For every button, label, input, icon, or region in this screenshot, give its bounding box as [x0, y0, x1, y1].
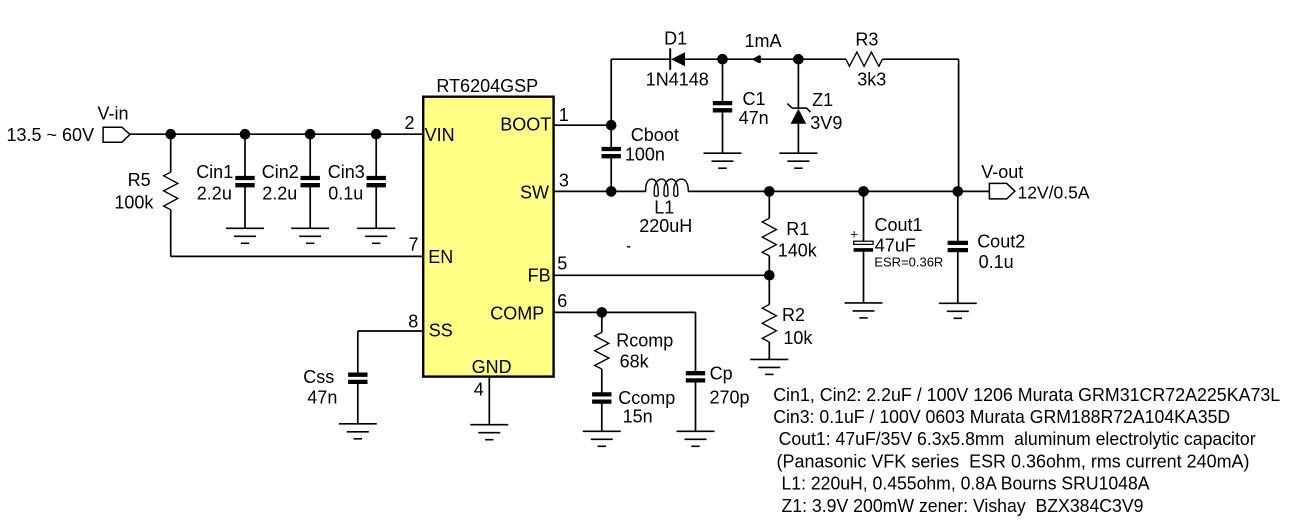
svg-text:Z1: Z1	[812, 90, 833, 110]
svg-text:68k: 68k	[620, 351, 650, 371]
svg-text:R3: R3	[855, 29, 878, 49]
svg-text:Cout1: 47uF/35V 6.3x5.8mm alu: Cout1: 47uF/35V 6.3x5.8mm aluminum elect…	[779, 429, 1256, 449]
svg-text:6: 6	[557, 291, 567, 311]
svg-text:Cin3: Cin3	[328, 162, 365, 182]
svg-text:10k: 10k	[783, 328, 813, 348]
svg-text:R2: R2	[782, 305, 805, 325]
svg-text:SW: SW	[520, 183, 549, 203]
svg-text:15n: 15n	[623, 407, 653, 427]
svg-text:5: 5	[557, 254, 567, 274]
svg-text:+: +	[850, 226, 858, 241]
svg-text:FB: FB	[528, 266, 551, 286]
svg-text:Cout2: Cout2	[977, 232, 1025, 252]
svg-text:0.1u: 0.1u	[979, 252, 1014, 272]
svg-text:1: 1	[559, 105, 569, 125]
svg-text:47n: 47n	[739, 108, 769, 128]
svg-text:3V9: 3V9	[810, 113, 842, 133]
svg-text:7: 7	[408, 235, 418, 255]
svg-text:Rcomp: Rcomp	[616, 331, 673, 351]
svg-text:220uH: 220uH	[639, 216, 692, 236]
svg-text:13.5 ~ 60V: 13.5 ~ 60V	[7, 125, 95, 145]
svg-text:Css: Css	[303, 367, 334, 387]
svg-text:8: 8	[408, 312, 418, 332]
svg-text:47uF: 47uF	[875, 236, 916, 256]
svg-text:R5: R5	[128, 170, 151, 190]
svg-text:(Panasonic VFK series ESR 0.3: (Panasonic VFK series ESR 0.36ohm, rms c…	[777, 451, 1250, 471]
svg-text:Cin3: 0.1uF / 100V 0603 Murata: Cin3: 0.1uF / 100V 0603 Murata GRM188R72…	[773, 407, 1230, 427]
svg-text:V-in: V-in	[98, 104, 129, 124]
svg-text:140k: 140k	[778, 240, 818, 260]
svg-text:1N4148: 1N4148	[646, 70, 709, 90]
svg-text:3: 3	[559, 171, 569, 191]
svg-text:4: 4	[474, 380, 484, 400]
svg-text:R1: R1	[786, 219, 809, 239]
svg-text:Cout1: Cout1	[875, 215, 923, 235]
svg-text:BOOT: BOOT	[500, 115, 551, 135]
svg-text:L1: L1	[654, 198, 674, 218]
svg-text:ESR=0.36R: ESR=0.36R	[874, 255, 943, 270]
svg-text:100n: 100n	[625, 145, 665, 165]
svg-text:Cp: Cp	[710, 364, 733, 384]
svg-text:0.1u: 0.1u	[328, 183, 363, 203]
svg-text:V-out: V-out	[981, 162, 1023, 182]
svg-text:1mA: 1mA	[745, 31, 782, 51]
svg-text:Cin1: Cin1	[196, 162, 233, 182]
svg-text:VIN: VIN	[425, 125, 455, 145]
svg-text:C1: C1	[743, 89, 766, 109]
svg-text:D1: D1	[664, 29, 687, 49]
svg-text:Z1: 3.9V 200mW zener: Vishay: Z1: 3.9V 200mW zener: Vishay BZX384C3V9	[782, 496, 1144, 516]
svg-text:RT6204GSP: RT6204GSP	[436, 76, 538, 96]
svg-text:COMP: COMP	[490, 303, 544, 323]
svg-text:2: 2	[404, 113, 414, 133]
svg-text:47n: 47n	[307, 388, 337, 408]
svg-text:100k: 100k	[114, 192, 154, 212]
svg-text:GND: GND	[472, 357, 512, 377]
svg-text:Ccomp: Ccomp	[618, 388, 675, 408]
svg-text:2.2u: 2.2u	[197, 183, 232, 203]
svg-text:SS: SS	[429, 321, 453, 341]
svg-text:12V/0.5A: 12V/0.5A	[1018, 183, 1090, 203]
svg-text:2.2u: 2.2u	[262, 183, 297, 203]
svg-text:270p: 270p	[710, 387, 750, 407]
svg-text:Cboot: Cboot	[631, 125, 679, 145]
svg-text:EN: EN	[428, 247, 453, 267]
svg-text:3k3: 3k3	[857, 69, 886, 89]
svg-text:Cin1, Cin2: 2.2uF / 100V 1206: Cin1, Cin2: 2.2uF / 100V 1206 Murata GRM…	[773, 385, 1280, 405]
svg-text:L1: 220uH, 0.455ohm, 0.8A Bour: L1: 220uH, 0.455ohm, 0.8A Bourns SRU1048…	[782, 474, 1150, 494]
svg-text:Cin2: Cin2	[262, 162, 299, 182]
